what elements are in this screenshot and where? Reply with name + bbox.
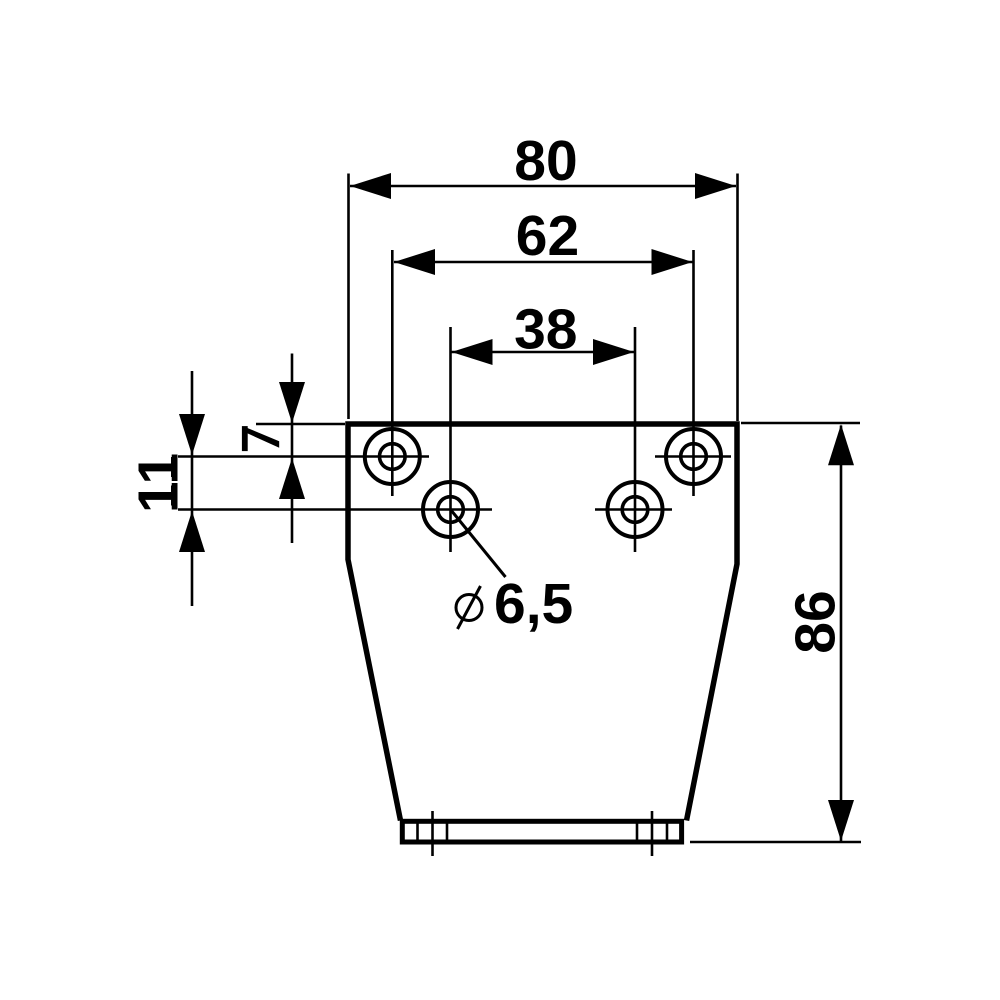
- hole lower-left inner circle: [438, 497, 464, 523]
- hole lower-right inner circle: [622, 497, 648, 523]
- hole upper-left outer circle: [365, 429, 420, 484]
- dim 80 left arrow: [350, 173, 391, 199]
- flange right hole edges: [636, 824, 639, 840]
- dim 62 right arrow: [652, 249, 693, 275]
- svg-text:80: 80: [514, 129, 577, 193]
- dim 7 text (drawn glyph, rotated): [242, 426, 248, 451]
- centerline upper-right horizontal: [655, 455, 731, 458]
- flange left hole edges: [416, 824, 419, 840]
- dim 11 text foot serif of first 1: [171, 457, 178, 477]
- flange right hole centerline: [651, 811, 654, 856]
- hole upper-right outer circle: [666, 429, 721, 484]
- centerline upper-left horizontal (also 7/11 extension): [178, 455, 429, 458]
- dim 38 left arrow: [452, 339, 493, 365]
- dim 86 bottom arrow: [828, 800, 854, 841]
- dim 38 line: [452, 351, 635, 354]
- svg-text:11: 11: [127, 453, 191, 513]
- hole upper-left inner circle: [380, 444, 406, 470]
- dim 7 top extension line: [256, 423, 345, 426]
- flange left hole centerline: [431, 811, 434, 856]
- dim 7 top arrow: [279, 382, 305, 423]
- centerline lower-left horizontal (also 11 extension): [178, 508, 492, 511]
- centerline upper-left vertical (also 62 left extension): [391, 250, 394, 496]
- dim 62 line: [394, 261, 693, 264]
- base flange: [402, 821, 681, 842]
- dim 86 bottom extension line: [690, 841, 861, 844]
- part outline (bracket body): [348, 424, 737, 821]
- diameter symbol slash: [458, 586, 481, 629]
- hole lower-right outer circle: [608, 482, 663, 537]
- dim 86 line vertical: [840, 426, 843, 842]
- dim 62 left arrow: [394, 249, 435, 275]
- centerline lower-right horizontal: [595, 508, 672, 511]
- dim 7 line vertical: [291, 354, 294, 544]
- dim 11 text foot serif of second 1: [171, 486, 178, 506]
- dim 80 left extension line: [347, 174, 350, 420]
- dim 80 right arrow: [695, 173, 736, 199]
- hole upper-right inner circle: [681, 444, 707, 470]
- dim 7 bottom arrow: [279, 458, 305, 499]
- svg-text:6,5: 6,5: [494, 572, 573, 636]
- centerline upper-right vertical (also 62 right extension): [692, 250, 695, 496]
- svg-text:38: 38: [514, 298, 577, 362]
- dim 86 top arrow: [828, 424, 854, 465]
- leader line for hole diameter: [451, 510, 506, 578]
- hole lower-left outer circle: [423, 482, 478, 537]
- centerline lower-left vertical (also 38 left extension): [449, 327, 452, 552]
- centerline lower-right vertical (also 38 right extension): [634, 327, 637, 552]
- svg-text:62: 62: [516, 204, 579, 268]
- svg-text:86: 86: [784, 590, 848, 653]
- dim 38 right arrow: [593, 339, 634, 365]
- dim 80 right extension line: [736, 174, 739, 422]
- dim 11 top arrow: [179, 414, 205, 455]
- dim 86 top extension line: [741, 422, 860, 425]
- dim 11 bottom arrow: [179, 511, 205, 552]
- dim 11 line vertical: [191, 371, 194, 606]
- diameter symbol circle: [456, 595, 482, 621]
- dim 80 line: [350, 185, 736, 188]
